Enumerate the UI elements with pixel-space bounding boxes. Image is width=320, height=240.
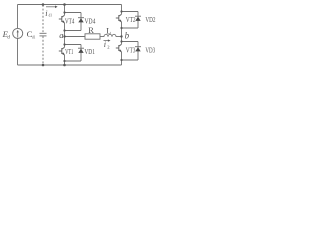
svg-text:2: 2 bbox=[107, 45, 110, 50]
svg-text:b: b bbox=[125, 31, 130, 41]
svg-text:VD3: VD3 bbox=[145, 46, 155, 54]
svg-text:VD4: VD4 bbox=[85, 18, 96, 26]
svg-text:VT2: VT2 bbox=[126, 16, 136, 24]
svg-text:VD1: VD1 bbox=[84, 48, 95, 56]
svg-text:d1: d1 bbox=[49, 13, 53, 18]
svg-text:a: a bbox=[59, 30, 63, 40]
svg-text:d: d bbox=[7, 36, 10, 41]
svg-text:d1: d1 bbox=[32, 34, 36, 39]
svg-text:VT3: VT3 bbox=[126, 46, 136, 54]
svg-text:L: L bbox=[106, 27, 111, 36]
svg-text:VT4: VT4 bbox=[65, 17, 75, 25]
svg-text:VD2: VD2 bbox=[145, 16, 155, 24]
svg-text:VT1: VT1 bbox=[65, 48, 73, 56]
svg-text:R: R bbox=[88, 26, 94, 35]
